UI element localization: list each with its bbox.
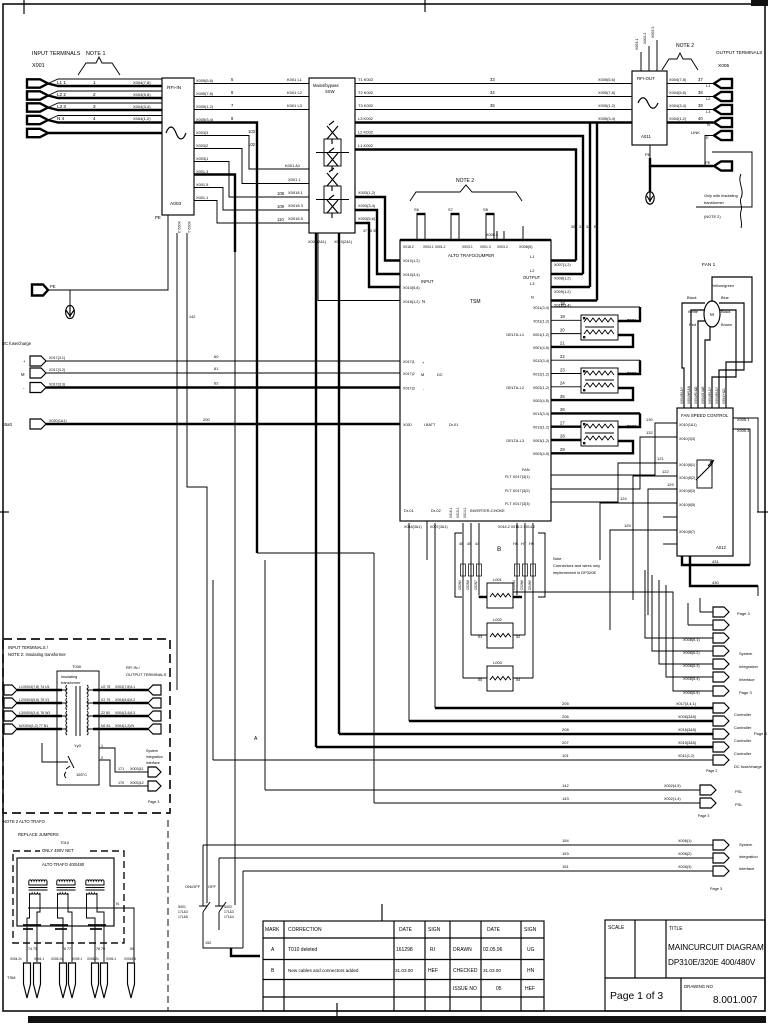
vertical 142 with jog [187,233,207,903]
svg-text:A012: A012 [716,545,726,550]
svg-text:ISSUE NO: ISSUE NO [453,986,477,992]
svg-text:L2: L2 [530,268,535,273]
svg-text:X008(3&5): X008(3&5) [678,715,697,719]
dashed section box [3,639,170,813]
svg-text:C62N8: C62N8 [466,580,470,590]
svg-text:X005.1: X005.1 [72,957,82,961]
svg-text:31: 31 [579,225,583,229]
svg-text:C52N6: C52N6 [520,580,524,590]
svg-text:X004(7,8): X004(7,8) [669,77,687,82]
svg-text:SSW: SSW [325,89,335,94]
svg-text:X002.1: X002.1 [187,221,191,233]
vertical from RFI-IN X002.3 [176,233,178,690]
elbow 32 into TSM L3 [551,286,590,288]
svg-text:HN: HN [527,968,535,974]
svg-text:X003.1: X003.1 [635,39,639,50]
svg-text:X018.2: X018.2 [403,245,414,249]
svg-text:transformer: transformer [704,200,725,205]
svg-text:T010 deleted: T010 deleted [288,947,317,953]
svg-text:DP310E/320E 400/480V: DP310E/320E 400/480V [668,958,756,967]
X005.3 wire right [733,429,750,565]
svg-text:31.03.00: 31.03.00 [395,968,413,973]
svg-text:52: 52 [516,635,520,639]
svg-text:Insulating: Insulating [61,675,77,679]
revision table [263,921,544,1011]
svg-text:DELTA-L3: DELTA-L3 [506,438,524,443]
svg-text:Yy0: Yy0 [74,743,82,748]
svg-text:L2: L2 [706,96,711,101]
svg-text:05: 05 [496,986,502,992]
svg-text:L001: L001 [493,577,503,582]
svg-text:NOTE 2: Insulating transformer: NOTE 2: Insulating transformer [8,652,67,657]
svg-text:HEF: HEF [428,968,438,974]
svg-text:L2/X004(5,6) 75 V1: L2/X004(5,6) 75 V1 [19,698,49,702]
svg-text:X011(1,2): X011(1,2) [533,320,549,324]
svg-text:X010(5,6): X010(5,6) [403,286,420,290]
svg-text:Integration: Integration [739,664,758,669]
svg-text:60: 60 [214,354,219,359]
svg-text:CHECKED: CHECKED [453,968,478,974]
svg-text:Dr-01: Dr-01 [449,423,458,427]
wire 109 [194,188,309,211]
svg-text:X003(1,2): X003(1,2) [533,439,549,443]
svg-text:02.05.96: 02.05.96 [483,947,503,953]
svg-text:X001.3: X001.3 [196,169,208,174]
transformer T001 [581,315,618,340]
svg-text:M: M [21,372,25,377]
out row 38 [667,96,713,98]
svg-text:X002.3: X002.3 [177,221,181,233]
svg-text:142: 142 [562,783,569,788]
PE stub below block [649,145,651,158]
svg-text:X008(5.3): X008(5.3) [683,664,700,668]
svg-text:T010: T010 [60,840,70,845]
wire row2 [194,96,309,98]
svg-text:X005(3,4): X005(3,4) [196,117,214,122]
svg-text:431: 431 [712,559,719,564]
border tick left-mid [0,511,9,513]
svg-text:K001 L2: K001 L2 [287,90,303,95]
PE wire to RFI-IN [48,215,168,290]
svg-text:152: 152 [205,941,211,945]
svg-text:S002: S002 [224,905,232,909]
svg-text:143: 143 [562,796,569,801]
svg-text:I.BATT: I.BATT [424,423,436,427]
svg-text:Mains/bypass: Mains/bypass [313,83,339,88]
thyristor symbol [327,121,338,144]
scale/title boxes [605,920,765,1011]
svg-text:X002(1,4): X002(1,4) [664,797,681,801]
svg-text:ON/OFF: ON/OFF [185,884,201,889]
svg-text:N2 81: N2 81 [101,724,110,728]
svg-text:125: 125 [624,523,631,528]
svg-text:23: 23 [560,368,565,373]
svg-text:T003: T003 [627,424,637,429]
svg-text:X004(3,4): X004(3,4) [669,103,687,108]
arrow 151 sysint [713,866,729,876]
svg-text:X011(1,2): X011(1,2) [678,754,695,758]
svg-text:I Batt: I Batt [2,422,13,427]
svg-text:74 75: 74 75 [28,947,37,951]
svg-text:S001: S001 [178,905,186,909]
svg-text:19: 19 [560,314,565,319]
svg-text:8.001.007: 8.001.007 [713,995,758,1006]
svg-text:X016(3&5): X016(3&5) [678,728,697,732]
arrow 205 controller [713,703,729,713]
svg-text:T030: T030 [72,664,82,669]
svg-text:X004(3,4): X004(3,4) [133,104,151,109]
svg-text:18: 18 [560,301,565,306]
svg-text:X006.2: X006.2 [486,233,498,237]
svg-text:X010(8|1): X010(8|1) [679,463,695,467]
svg-text:SIGN: SIGN [524,927,537,933]
svg-text:121: 121 [657,456,664,461]
wire row4 thick to vertical [194,123,257,554]
svg-text:X008(5.2): X008(5.2) [683,651,700,655]
svg-text:Page 2: Page 2 [706,769,717,773]
svg-text:X001(1,2): X001(1,2) [533,333,549,337]
wire N cable pair [48,116,162,121]
svg-text:interface: interface [146,761,160,765]
svg-text:24: 24 [560,381,565,386]
earth symbol on PE wire [69,290,71,306]
svg-text:N: N [116,901,119,906]
svg-text:171&4: 171&4 [224,915,234,919]
svg-text:Z2 80: Z2 80 [101,711,110,715]
svg-text:X004(5,6): X004(5,6) [669,90,687,95]
svg-text:DATE: DATE [399,927,413,933]
svg-text:TITLE: TITLE [669,926,683,932]
svg-text:Yellow/green: Yellow/green [712,283,734,288]
svg-text:X004(1,2)/N: X004(1,2)/N [115,724,134,728]
terminal X001 L1 [27,79,48,87]
svg-text:DATE: DATE [487,927,501,933]
svg-text:S8: S8 [483,207,489,212]
svg-text:151: 151 [562,864,569,869]
svg-text:X006(2): X006(2) [678,852,692,856]
svg-text:X008(1,2): X008(1,2) [554,277,571,281]
bottom wires [203,871,243,948]
svg-text:Page 3: Page 3 [148,800,159,804]
svg-text:OUTPUT TERMINALS: OUTPUT TERMINALS [126,672,167,677]
svg-text:X004(3,4)/L3: X004(3,4)/L3 [115,711,135,715]
wire L3 K002 thick to RFI-OUT [355,121,632,123]
svg-text:206: 206 [562,714,569,719]
svg-text:X003.1: X003.1 [462,245,473,249]
svg-text:31.03.00: 31.03.00 [483,968,501,973]
switch S8 [486,214,494,240]
svg-text:171&3: 171&3 [224,910,234,914]
svg-text:4: 4 [93,116,96,121]
svg-text:101: 101 [562,753,569,758]
wire 110 [194,201,309,224]
svg-text:X004.1: X004.1 [34,957,44,961]
svg-text:K001 A1: K001 A1 [285,163,301,168]
wire 132 from FLT2 [551,437,677,489]
svg-text:NOTE 2: NOTE 2 [676,43,694,49]
svg-text:X0018.5: X0018.5 [124,957,136,961]
arrow 206 controller [713,716,729,726]
fuse bracket left [455,533,462,597]
row8 elbow to 374 [257,552,374,554]
svg-text:129: 129 [667,482,674,487]
svg-text:T3 K002: T3 K002 [358,103,374,108]
svg-text:T2 K002: T2 K002 [358,90,374,95]
svg-text:INPUT TERMINALS /: INPUT TERMINALS / [8,645,49,650]
svg-text:L1: L1 [530,254,535,259]
switch S6 [417,214,425,240]
terminal X020 [30,419,46,429]
svg-text:INPUT: INPUT [421,279,434,284]
svg-text:MARK: MARK [265,927,280,933]
svg-text:ALTO TRAFO 400/480: ALTO TRAFO 400/480 [42,862,85,867]
wire L1 cable pair [48,79,162,84]
border tick top-left [23,0,25,14]
fuse bracket right [538,533,545,597]
svg-text:M: M [710,312,714,317]
svg-text:33: 33 [490,77,495,82]
RFI-OUT block A011 [632,71,667,145]
svg-text:X007(1,2): X007(1,2) [554,263,571,267]
arrow 101 dc fuse [713,755,729,765]
svg-text:Controller: Controller [734,712,752,717]
svg-text:X008(5.1): X008(5.1) [683,638,700,642]
svg-text:X004/B1&Y: X004/B1&Y [715,386,719,404]
svg-text:X003.3: X003.3 [651,27,655,38]
wire 122 [633,476,677,600]
svg-text:UG: UG [527,947,535,953]
svg-text:X017|2: X017|2 [403,372,415,376]
svg-text:35: 35 [490,103,495,108]
svg-text:X010(8|3): X010(8|3) [679,489,695,493]
wire T1 K002 [355,83,632,85]
svg-text:32: 32 [586,225,590,229]
svg-text:K001 L3: K001 L3 [287,103,303,108]
svg-text:170: 170 [118,781,124,785]
svg-text:DELTA-L2: DELTA-L2 [506,385,524,390]
arrow X008(5.2) [713,646,729,656]
svg-text:RFI-OUT: RFI-OUT [637,76,655,81]
svg-text:V2 79: V2 79 [101,698,110,702]
svg-text:PE: PE [705,160,711,165]
wire X003(5,6) thick [355,223,400,287]
svg-text:INPUT TERMINALS: INPUT TERMINALS [32,51,81,57]
svg-text:X017|3: X017|3 [403,387,415,391]
svg-text:27: 27 [560,421,565,426]
N wire across [28,908,134,962]
svg-text:X020: X020 [403,423,412,427]
svg-text:T1 K002: T1 K002 [358,77,374,82]
svg-text:RFI IN /: RFI IN / [126,665,141,670]
svg-text:System: System [739,842,753,847]
svg-text:L3 K002: L3 K002 [358,116,374,121]
wire X003(3,4) thick [355,210,400,274]
svg-text:FAN: FAN [522,467,530,472]
svg-text:30: 30 [571,225,575,229]
FAN SPEED CONTROL block A012 [677,408,733,556]
svg-text:B: B [497,546,501,553]
svg-text:Blue: Blue [721,295,729,300]
svg-text:X005(7,8): X005(7,8) [196,91,214,96]
stub2 [663,543,677,545]
svg-text:109: 109 [277,204,285,209]
svg-text:FLT X017(3|2): FLT X017(3|2) [505,488,530,493]
terminal X017(3.1) [30,356,46,366]
svg-text:L1: L1 [706,83,711,88]
svg-text:X005(2&1): X005(2&1) [308,240,327,244]
wire 108 [194,162,309,198]
ALTO TRAFO box [17,858,114,926]
SSW bottom thick vertical to row 207 [315,233,317,747]
svg-text:X004(1,2): X004(1,2) [669,116,687,121]
wire 62 thick [46,386,400,388]
svg-text:X004(1,2): X004(1,2) [133,116,151,121]
svg-text:DC fuse/charge: DC fuse/charge [2,341,32,346]
svg-text:37 36 35: 37 36 35 [363,229,377,233]
svg-text:System: System [739,651,753,656]
svg-text:X015.1: X015.1 [456,507,460,518]
svg-text:X010(2&1): X010(2&1) [334,240,353,244]
svg-text:1: 1 [93,80,96,85]
svg-text:X002(4,5): X002(4,5) [533,399,549,403]
svg-text:X001(4,5): X001(4,5) [533,346,549,350]
svg-text:122: 122 [662,469,669,474]
svg-text:DRAWN: DRAWN [453,947,472,953]
svg-text:X018(3&1): X018(3&1) [404,525,422,529]
svg-text:U2 78: U2 78 [101,685,110,689]
svg-text:L3: L3 [706,109,711,114]
svg-text:S7: S7 [448,207,454,212]
svg-text:C62N9: C62N9 [458,580,462,590]
svg-text:X016.1: X016.1 [449,507,453,518]
svg-text:X001.3: X001.3 [480,245,491,249]
svg-text:207: 207 [562,740,569,745]
bottom black bar [28,1016,766,1023]
jumper wiring [27,903,40,962]
svg-text:X010(3|3): X010(3|3) [679,437,695,441]
wire 102 to X001 1 [194,149,309,184]
svg-text:L2 K002: L2 K002 [358,130,374,135]
svg-text:L3/X004(3,4) 76 W1: L3/X004(3,4) 76 W1 [19,711,50,715]
arrow 143 PSL [700,798,716,808]
wire T2 K002 [355,96,632,98]
svg-text:25: 25 [560,394,565,399]
switch S001 [199,845,210,930]
svg-text:Brown: Brown [721,322,732,327]
svg-text:L1 K002: L1 K002 [358,143,374,148]
svg-text:FLT X017(3|1): FLT X017(3|1) [505,474,530,479]
svg-text:implemented in DP320E: implemented in DP320E [553,570,596,575]
svg-text:208: 208 [562,727,569,732]
fuse column right 2 [524,523,526,635]
svg-text:TSM: TSM [470,299,481,305]
svg-text:28: 28 [560,434,565,439]
svg-text:38: 38 [698,90,703,95]
svg-text:62: 62 [214,381,219,386]
terminal X017(3.2) [30,368,46,378]
RFI-IN block A003 [162,78,194,215]
fuse column 44 [462,523,464,678]
svg-text:X005.2x: X005.2x [51,957,63,961]
svg-text:N/X004(1,2) 77 N1: N/X004(1,2) 77 N1 [19,724,48,728]
wire 124 [600,503,677,560]
svg-text:37: 37 [698,77,703,82]
svg-text:X0018 3: X0018 3 [288,203,304,208]
svg-text:L2 2: L2 2 [57,92,66,97]
svg-text:SCALE: SCALE [608,925,625,931]
svg-text:NOTE 2 ALTO TRAFO: NOTE 2 ALTO TRAFO [3,819,46,824]
wire L2 K002 thick [355,136,583,274]
svg-text:X010(1,2): X010(1,2) [403,259,420,263]
wire X001.3 thick down [194,175,235,253]
wires into arrows 3-7 [645,570,713,638]
svg-text:153: 153 [562,851,569,856]
svg-text:X014.1: X014.1 [463,507,467,518]
svg-text:103: 103 [248,129,256,134]
svg-text:X005(1,2): X005(1,2) [196,104,214,109]
svg-text:X004(7,8): X004(7,8) [133,80,151,85]
svg-text:20: 20 [560,328,565,333]
PE down to earth [649,166,651,192]
svg-text:X006.1: X006.1 [106,957,116,961]
svg-text:155°C: 155°C [76,772,87,777]
svg-text:interface: interface [739,866,755,871]
svg-text:X017(3.2): X017(3.2) [49,368,65,372]
svg-text:T002: T002 [627,371,637,376]
svg-text:X008(5.4): X008(5.4) [683,677,700,681]
stub [663,516,677,518]
fan wire black left [682,303,705,408]
svg-text:130: 130 [646,417,653,422]
wire PE thick [48,132,162,134]
terminal X001 L2 [27,91,48,99]
svg-text:X001.1: X001.1 [196,195,208,200]
svg-text:X009(1,2): X009(1,2) [554,290,571,294]
svg-text:RFI-IN: RFI-IN [167,85,182,91]
svg-text:55: 55 [478,678,482,682]
svg-text:Page 1 of 3: Page 1 of 3 [610,991,663,1002]
svg-text:76 77: 76 77 [62,947,71,951]
svg-text:L3: L3 [530,281,535,286]
svg-text:142: 142 [189,315,195,319]
svg-text:Controller: Controller [734,751,752,756]
svg-text:N: N [531,295,534,300]
svg-text:X004/B1&Y: X004/B1&Y [680,386,684,404]
svg-text:N: N [422,299,425,304]
dashed box ONLY 480V NET [13,851,124,943]
TSM block [400,240,551,521]
wire 430 [690,556,758,586]
svg-text:X012(3,4): X012(3,4) [533,359,549,363]
thin stub [426,521,428,560]
svg-text:(NOTE 2): (NOTE 2) [704,214,721,219]
transformer T003 [581,421,618,446]
svg-text:102: 102 [248,142,256,147]
svg-text:TSM: TSM [7,975,15,980]
svg-text:124: 124 [620,496,627,501]
svg-text:RI: RI [430,947,435,953]
vertical to S002 [234,252,236,905]
svg-text:L1 1: L1 1 [57,80,66,85]
svg-text:X003(4,5): X003(4,5) [533,452,549,456]
svg-text:NOTE 1: NOTE 1 [86,51,105,57]
transformer 2 [57,880,75,881]
svg-text:ONLY 480V NET: ONLY 480V NET [42,848,74,853]
svg-text:X001: X001 [32,63,45,69]
svg-text:X010(8|5): X010(8|5) [679,503,695,507]
svg-text:X010(1&1): X010(1&1) [679,423,697,427]
arrow X008(5.3) [713,659,729,669]
